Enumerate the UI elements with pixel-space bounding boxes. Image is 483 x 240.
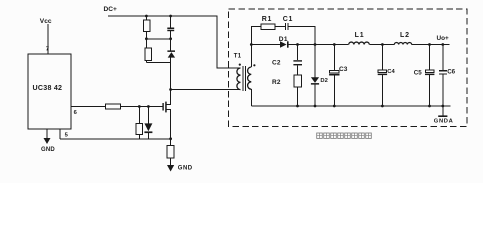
svg-text:Vcc: Vcc (40, 18, 52, 25)
svg-text:R2: R2 (272, 79, 281, 86)
svg-text:UC38 42: UC38 42 (33, 84, 63, 92)
svg-text:R1: R1 (262, 16, 272, 23)
svg-text:C4: C4 (387, 69, 395, 75)
svg-text:T1: T1 (234, 54, 242, 60)
svg-text:C3: C3 (339, 66, 348, 73)
svg-text:C5: C5 (414, 70, 422, 77)
svg-text:7: 7 (46, 47, 49, 53)
svg-text:GND: GND (178, 166, 193, 172)
svg-text:L2: L2 (400, 32, 410, 39)
svg-text:C2: C2 (272, 60, 281, 67)
svg-text:C1: C1 (283, 16, 293, 23)
svg-text:GND: GND (41, 147, 55, 153)
svg-text:D2: D2 (320, 78, 327, 84)
svg-text:Uo+: Uo+ (437, 35, 450, 42)
svg-text:L1: L1 (355, 32, 365, 39)
svg-text:C6: C6 (447, 69, 455, 76)
svg-text:DC+: DC+ (104, 6, 118, 13)
svg-text:GNDA: GNDA (434, 119, 454, 125)
svg-text:D1: D1 (279, 36, 288, 43)
